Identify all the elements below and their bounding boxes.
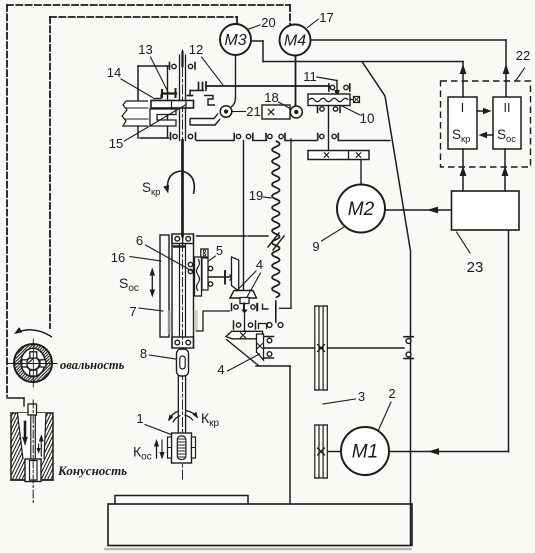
svg-text:12: 12 — [189, 42, 203, 57]
svg-text:II: II — [504, 101, 511, 115]
svg-text:23: 23 — [467, 259, 484, 276]
svg-text:13: 13 — [138, 42, 152, 57]
svg-text:овальность: овальность — [60, 358, 125, 372]
svg-text:5: 5 — [216, 243, 223, 258]
svg-text:4: 4 — [217, 362, 224, 377]
svg-text:15: 15 — [109, 136, 123, 151]
svg-text:4: 4 — [256, 257, 263, 272]
svg-text:2: 2 — [388, 386, 395, 401]
svg-text:21: 21 — [246, 104, 260, 119]
svg-text:I: I — [461, 101, 464, 115]
svg-text:7: 7 — [129, 304, 136, 319]
svg-text:19: 19 — [249, 188, 263, 203]
svg-text:11: 11 — [303, 69, 317, 84]
svg-text:17: 17 — [319, 10, 333, 25]
svg-text:М3: М3 — [224, 32, 246, 49]
svg-text:8: 8 — [140, 346, 147, 361]
svg-text:М1: М1 — [352, 442, 378, 463]
svg-text:М4: М4 — [284, 33, 306, 50]
svg-text:22: 22 — [516, 48, 530, 63]
svg-text:16: 16 — [111, 250, 125, 265]
svg-text:3: 3 — [358, 389, 365, 404]
svg-text:20: 20 — [261, 15, 275, 30]
svg-text:1: 1 — [136, 411, 143, 426]
svg-text:14: 14 — [107, 65, 121, 80]
svg-text:Конусность: Конусность — [57, 463, 127, 478]
svg-text:6: 6 — [136, 233, 143, 248]
svg-text:10: 10 — [359, 111, 374, 126]
svg-text:М2: М2 — [348, 199, 375, 220]
svg-text:9: 9 — [312, 239, 319, 254]
svg-text:18: 18 — [264, 90, 278, 105]
